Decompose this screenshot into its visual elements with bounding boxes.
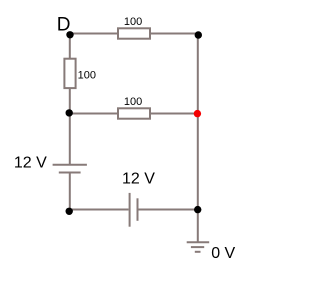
wire bottom horizontal right [139,209,198,211]
wire bottom horizontal left [69,209,128,211]
resistor R1 100 (top) [118,16,150,39]
resistor R3 100 (left vertical) [64,59,96,88]
svg-text:100: 100 [124,96,142,108]
wire left vertical upper [69,34,71,165]
node dot D (top left) [66,31,73,38]
battery B2 12V (bottom, horizontal) [130,193,138,227]
node dot bottom right [194,206,201,213]
node dot bottom left [66,208,73,215]
wire middle horizontal [69,113,198,115]
battery B1 12V (left, vertical) [53,165,87,173]
node dot middle left [66,109,73,116]
node dot top right [195,31,202,38]
ground symbol [187,242,210,252]
svg-text:0 V: 0 V [211,245,235,262]
wire top horizontal [69,33,198,35]
wire left vertical lower [69,173,71,211]
wire right vertical [197,34,199,243]
svg-text:12 V: 12 V [122,170,155,187]
resistor R2 100 (middle) [118,96,150,119]
svg-text:100: 100 [78,69,96,81]
node dot middle right (red probe) [194,110,201,117]
svg-text:12 V: 12 V [14,155,47,172]
svg-text:100: 100 [124,16,142,28]
